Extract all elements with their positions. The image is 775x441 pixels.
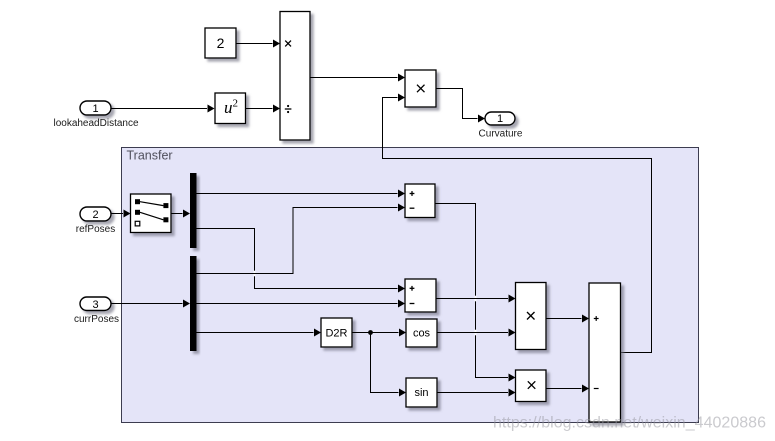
wire constant to divide bbox=[236, 40, 280, 48]
outport 1 Curvature bbox=[479, 112, 523, 140]
wire selector to demux1 bbox=[171, 210, 190, 218]
wire inport3 to demux2 bbox=[111, 300, 190, 308]
wire feedback from sum3 output to product input 2 bbox=[383, 94, 652, 353]
wire sum1 out to product2 input1 bbox=[435, 204, 516, 382]
product block bbox=[405, 70, 436, 107]
wire D2R to cos with junction bbox=[352, 329, 406, 337]
wire demux2 out3 to D2R bbox=[197, 329, 322, 337]
wire demux1 out1 to sum1 plus bbox=[197, 190, 406, 198]
svg-text:sin: sin bbox=[414, 387, 428, 399]
wire demux2 out2 to sum2 minus bbox=[197, 300, 406, 308]
wire product3 to sum3 minus bbox=[546, 385, 589, 393]
sin block bbox=[406, 378, 437, 407]
product block 2 tall bbox=[516, 283, 547, 350]
divide block bbox=[280, 12, 310, 141]
demux 2 bbox=[190, 256, 197, 351]
inport 3 currPoses bbox=[74, 297, 119, 325]
product block 3 bbox=[516, 370, 547, 402]
svg-text:lookaheadDistance: lookaheadDistance bbox=[53, 118, 138, 129]
svg-text:2: 2 bbox=[233, 98, 239, 110]
constant block 2 bbox=[205, 28, 236, 58]
svg-text:refPoses: refPoses bbox=[76, 224, 115, 235]
sum block 1 bbox=[405, 184, 435, 218]
wire junction to sin bbox=[371, 333, 407, 397]
math function block u^2 bbox=[215, 93, 246, 124]
wire inport2 to selector bbox=[111, 210, 131, 218]
svg-text:D2R: D2R bbox=[325, 328, 347, 340]
cos block bbox=[406, 319, 437, 347]
sum block 2 bbox=[405, 279, 436, 312]
wire product to outport Curvature bbox=[436, 89, 485, 123]
svg-text:3: 3 bbox=[92, 299, 98, 311]
svg-text:cos: cos bbox=[413, 328, 431, 340]
inport 2 refPoses bbox=[76, 207, 115, 235]
wire demux1 out2 to sum2 plus bbox=[197, 229, 406, 293]
selector block bbox=[131, 194, 172, 233]
inport 1 lookaheadDistance bbox=[53, 101, 138, 129]
wire sum2 out to product1 input1 bbox=[436, 295, 516, 303]
svg-text:1: 1 bbox=[92, 103, 98, 115]
wire product2 to sum3 plus bbox=[546, 315, 589, 323]
sum block 3 tall bbox=[589, 283, 621, 422]
watermark bbox=[493, 415, 766, 432]
svg-text:2: 2 bbox=[92, 209, 98, 221]
wire sin to product2 input2 bbox=[437, 389, 516, 397]
label Transfer bbox=[127, 148, 173, 162]
svg-text:Curvature: Curvature bbox=[479, 129, 523, 140]
svg-text:u: u bbox=[224, 98, 233, 117]
demux 1 bbox=[190, 173, 197, 248]
wire u^2 to divide bbox=[246, 105, 281, 113]
wire inport1 to u^2 bbox=[111, 105, 215, 113]
wire cos to product1 input2 bbox=[437, 329, 516, 337]
wire demux2 out1 to sum1 minus bbox=[197, 204, 406, 277]
svg-text:currPoses: currPoses bbox=[74, 314, 119, 325]
D2R block bbox=[321, 318, 352, 347]
svg-text:Transfer: Transfer bbox=[127, 148, 173, 162]
svg-text:1: 1 bbox=[497, 113, 503, 125]
svg-text:2: 2 bbox=[217, 35, 225, 51]
wire divide to product bbox=[310, 74, 405, 82]
svg-text:https://blog.csdn.net/weixin_4: https://blog.csdn.net/weixin_44020886 bbox=[493, 415, 766, 432]
area Transfer bbox=[122, 148, 699, 423]
